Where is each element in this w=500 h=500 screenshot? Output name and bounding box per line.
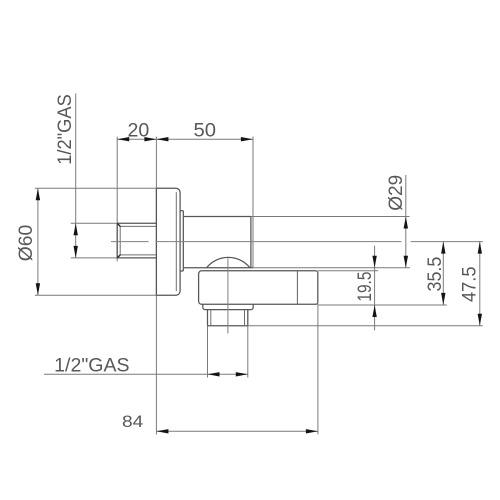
- dimension line 1/2"GAS bottom: [44, 373, 248, 375]
- dimension line 19.5: [374, 246, 376, 331]
- dimension line 35.5: [442, 242, 444, 305]
- svg-text:20: 20: [128, 121, 150, 142]
- elbow block: valve body: [199, 271, 318, 305]
- svg-text:47.5: 47.5: [459, 267, 480, 303]
- outlet: 1/2" GAS male thread down: [208, 310, 248, 326]
- collar: trim ring at flange face: [180, 211, 183, 271]
- dimension line Ø60: [37, 188, 39, 295]
- wire: extension of connector top/bottom to left: [71, 222, 117, 224]
- wire: extension of arm top edge to Ø29 dimension: [251, 216, 410, 218]
- wire: horizontal axis centerline: [111, 241, 483, 243]
- svg-text:1/2"GAS: 1/2"GAS: [55, 94, 76, 165]
- flange: wall escutcheon Ø60: [156, 188, 180, 295]
- wire: vertical outlet axis centerline: [227, 258, 229, 333]
- svg-text:84: 84: [122, 412, 143, 431]
- svg-text:1/2"GAS: 1/2"GAS: [54, 356, 129, 377]
- dome: rounded top of elbow: [207, 257, 251, 267]
- wire: extension block right edge down (84-right): [317, 304, 319, 434]
- flange face edge line: [175, 192, 177, 291]
- dimension line 47.5: [479, 242, 481, 326]
- arm: horizontal spout body Ø29: [183, 216, 251, 218]
- svg-text:19.5: 19.5: [355, 272, 376, 302]
- wire: leader line for 1/2"GAS top: [75, 94, 77, 224]
- wire: extension of arm bottom edge to Ø29 dimension: [253, 267, 410, 269]
- dimension line Ø29: [405, 175, 407, 268]
- lip: outlet shoulder: [203, 304, 253, 309]
- svg-text:50: 50: [194, 121, 217, 142]
- wire: Ø60 extension lines: [35, 187, 156, 189]
- svg-text:35.5: 35.5: [425, 257, 446, 292]
- wire: extension line 20-left: [116, 137, 118, 262]
- wire: extension block bottom right: [318, 304, 447, 306]
- dimension line 20/50: [117, 138, 253, 140]
- svg-text:Ø29: Ø29: [386, 175, 407, 211]
- svg-text:Ø60: Ø60: [16, 225, 37, 262]
- wire: extension block top right: [318, 270, 378, 272]
- dimension line 84: [156, 430, 318, 432]
- wire: extension line 50-right: [252, 137, 254, 268]
- wire: wall / extension line (50-left, 84-left): [155, 137, 157, 435]
- wire: extension outlet end right: [248, 325, 483, 327]
- wire: outlet extension lines down: [207, 326, 209, 378]
- connector: 1/2" GAS male thread to wall: [117, 223, 156, 258]
- elbow block joint line: [296, 271, 298, 305]
